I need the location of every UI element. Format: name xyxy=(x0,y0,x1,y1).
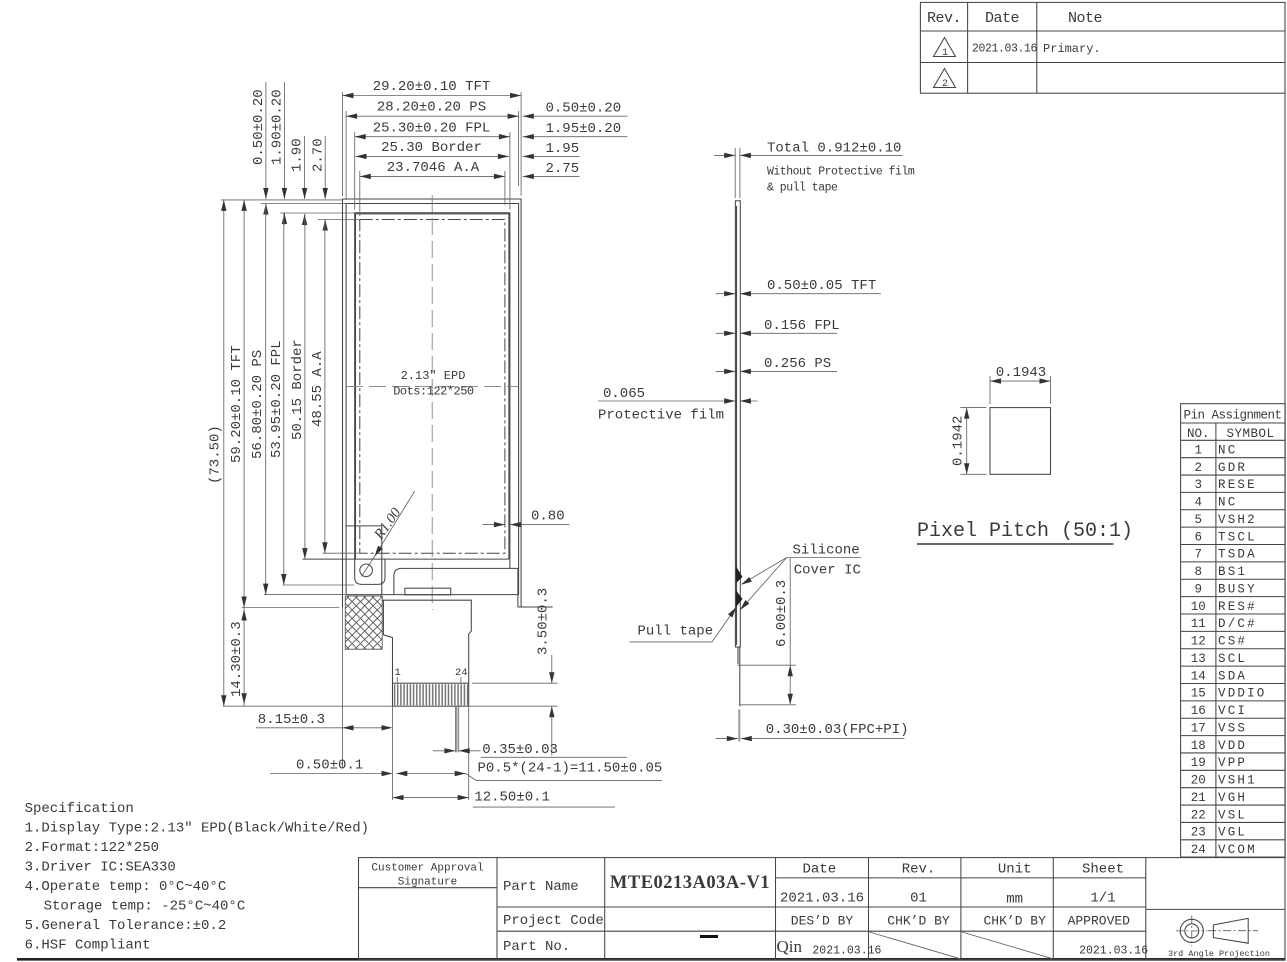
svg-text:8.15±0.3: 8.15±0.3 xyxy=(258,712,325,728)
dimension 0.1943 xyxy=(990,380,1051,382)
dimension 0.50+-0.05 TFT xyxy=(716,293,736,295)
bonding zone right edge xyxy=(381,526,383,595)
right gap dimension 2.75 xyxy=(523,175,580,177)
svg-text:NC: NC xyxy=(1218,444,1237,458)
svg-text:14: 14 xyxy=(1191,669,1206,683)
svg-text:TSCL: TSCL xyxy=(1218,530,1257,544)
R1.00 leader xyxy=(375,491,415,557)
connector pin block xyxy=(393,683,469,706)
pin 1 tick and label xyxy=(396,677,398,683)
gap dim line 1.90 xyxy=(304,136,306,199)
pin 24 tick and label xyxy=(460,677,462,683)
svg-text:1/1: 1/1 xyxy=(1090,891,1115,907)
svg-text:GDR: GDR xyxy=(1218,461,1247,475)
3rd angle projection cone symbol xyxy=(1213,918,1248,943)
svg-text:Pin Assignment: Pin Assignment xyxy=(1183,409,1281,423)
svg-text:mm: mm xyxy=(1006,892,1023,908)
TFT glass outline xyxy=(343,199,522,608)
svg-text:6: 6 xyxy=(1194,530,1202,544)
svg-text:VCOM: VCOM xyxy=(1218,843,1257,857)
sheet right border xyxy=(1284,2,1286,959)
svg-text:VDD: VDD xyxy=(1218,739,1247,753)
svg-text:2: 2 xyxy=(942,79,948,90)
dimension 0.1942 xyxy=(966,408,968,475)
cover IC blob xyxy=(736,590,743,607)
svg-text:11: 11 xyxy=(1191,617,1206,631)
bonding zone top edge xyxy=(346,525,382,527)
svg-text:Dots:122*250: Dots:122*250 xyxy=(393,385,474,399)
polarizer step outline right of hole xyxy=(394,568,518,607)
svg-text:Without Protective film: Without Protective film xyxy=(767,165,915,178)
svg-text:NO.: NO. xyxy=(1187,427,1210,441)
3rd angle projection circle symbol xyxy=(1180,919,1203,942)
dimension 0.256 PS xyxy=(716,370,736,372)
svg-text:VGL: VGL xyxy=(1218,826,1247,840)
revision table frame xyxy=(920,2,1285,93)
dimension 0.50+-0.1 xyxy=(270,773,392,775)
svg-text:0.80: 0.80 xyxy=(531,509,565,525)
svg-text:4.Operate temp: 0°C~40°C: 4.Operate temp: 0°C~40°C xyxy=(25,879,227,895)
PS bottom edge xyxy=(346,594,518,596)
svg-text:16: 16 xyxy=(1191,704,1206,718)
svg-text:Protective film: Protective film xyxy=(598,408,724,424)
dimension 25.30+-0.20 FPL xyxy=(355,136,510,138)
sheet bottom border xyxy=(17,958,1286,961)
svg-text:Pull tape: Pull tape xyxy=(638,624,714,640)
ACF hatch area xyxy=(345,596,382,649)
svg-text:2021.03.16: 2021.03.16 xyxy=(1079,945,1148,958)
dimension 0.30+-0.03 (FPC+PI) xyxy=(716,738,738,740)
svg-text:2: 2 xyxy=(1194,461,1202,475)
left dimension 48.55 A.A xyxy=(324,220,326,554)
svg-text:5.General Tolerance:±0.2: 5.General Tolerance:±0.2 xyxy=(25,918,227,934)
FPC lower strip xyxy=(739,647,741,706)
svg-text:0.065: 0.065 xyxy=(603,386,645,402)
svg-text:VGH: VGH xyxy=(1218,791,1247,805)
svg-text:2021.03.16: 2021.03.16 xyxy=(780,891,864,907)
TFT left edge extension down xyxy=(342,608,344,769)
svg-text:01: 01 xyxy=(910,891,927,907)
svg-text:VSH2: VSH2 xyxy=(1218,513,1257,527)
svg-text:VSH1: VSH1 xyxy=(1218,774,1257,788)
left dimension 56.80+-0.20 PS xyxy=(265,204,267,595)
svg-text:2021.03.16: 2021.03.16 xyxy=(812,945,881,958)
svg-text:Primary.: Primary. xyxy=(1043,42,1101,56)
left dimension 59.20+-0.10 TFT xyxy=(243,200,245,608)
svg-text:CHK’D BY: CHK’D BY xyxy=(887,914,950,929)
border outline xyxy=(356,214,509,559)
svg-text:1.95±0.20: 1.95±0.20 xyxy=(546,121,622,137)
svg-text:Note: Note xyxy=(1068,10,1103,27)
dimension 0.80 xyxy=(482,524,505,526)
svg-text:13: 13 xyxy=(1191,652,1206,666)
svg-text:24: 24 xyxy=(455,667,468,679)
svg-text:53.95±0.20 FPL: 53.95±0.20 FPL xyxy=(269,340,285,458)
svg-text:0.1942: 0.1942 xyxy=(951,416,967,466)
svg-text:Part Name: Part Name xyxy=(503,879,579,895)
silicone blob xyxy=(736,566,743,583)
cover IC leader xyxy=(741,558,787,610)
svg-text:12.50±0.1: 12.50±0.1 xyxy=(474,790,550,806)
svg-text:2.Format:122*250: 2.Format:122*250 xyxy=(25,840,159,856)
revision marker triangle 2 xyxy=(934,69,956,88)
svg-text:0.156 FPL: 0.156 FPL xyxy=(764,318,840,334)
svg-text:Part No.: Part No. xyxy=(503,939,570,955)
TFT bottom right edge segment xyxy=(518,606,553,608)
svg-text:Signature: Signature xyxy=(398,877,457,889)
dimension 0.065 protective film xyxy=(598,400,735,402)
dimension 0.35+-0.03 xyxy=(433,750,455,752)
PS sheet outline xyxy=(346,204,518,595)
pull tape strip xyxy=(738,710,740,742)
svg-text:BUSY: BUSY xyxy=(1218,582,1257,596)
svg-text:3: 3 xyxy=(1194,478,1202,492)
svg-text:23: 23 xyxy=(1191,826,1206,840)
svg-text:2.70: 2.70 xyxy=(310,138,326,172)
svg-text:48.55 A.A: 48.55 A.A xyxy=(310,351,326,427)
dimension Total 0.912+-0.10 xyxy=(714,148,903,198)
dimension 6.00+-0.3 xyxy=(738,558,797,705)
svg-text:Qin: Qin xyxy=(777,937,803,956)
svg-text:VSL: VSL xyxy=(1218,808,1247,822)
svg-text:3rd Angle Projection: 3rd Angle Projection xyxy=(1168,949,1270,959)
svg-text:Rev.: Rev. xyxy=(902,862,936,878)
dimension 28.20+-0.20 PS xyxy=(346,115,518,117)
FPL sheet outline xyxy=(355,213,510,585)
svg-text:14.30±0.3: 14.30±0.3 xyxy=(229,621,245,697)
svg-text:NC: NC xyxy=(1218,496,1237,510)
horizontal centerline xyxy=(346,385,518,387)
svg-text:6.HSF Compliant: 6.HSF Compliant xyxy=(25,938,151,954)
top extension lines xyxy=(343,92,522,216)
svg-text:CS#: CS# xyxy=(1218,635,1247,649)
svg-text:VCI: VCI xyxy=(1218,704,1247,718)
active area A.A dash-dot rectangle xyxy=(360,220,505,554)
svg-text:0.256 PS: 0.256 PS xyxy=(764,356,831,372)
svg-text:RESE: RESE xyxy=(1218,478,1257,492)
svg-text:8: 8 xyxy=(1194,565,1202,579)
dimension 25.30 Border xyxy=(356,155,509,157)
extended pin trace below connector xyxy=(456,706,459,752)
svg-text:2021.03.16: 2021.03.16 xyxy=(972,43,1038,56)
svg-text:4: 4 xyxy=(1194,496,1202,510)
svg-text:BS1: BS1 xyxy=(1218,565,1247,579)
dimension 29.20+-0.10 TFT xyxy=(343,95,522,97)
svg-text:1: 1 xyxy=(942,48,948,59)
svg-text:APPROVED: APPROVED xyxy=(1068,914,1131,929)
svg-text:22: 22 xyxy=(1191,808,1206,822)
svg-text:17: 17 xyxy=(1191,721,1206,735)
svg-text:P0.5*(24-1)=11.50±0.05: P0.5*(24-1)=11.50±0.05 xyxy=(478,761,663,777)
svg-text:5: 5 xyxy=(1194,513,1202,527)
svg-text:1.90±0.20: 1.90±0.20 xyxy=(270,89,286,165)
svg-text:56.80±0.20 PS: 56.80±0.20 PS xyxy=(250,350,266,459)
right gap dimension 0.50+-0.20 xyxy=(523,115,628,117)
svg-text:SYMBOL: SYMBOL xyxy=(1226,427,1274,441)
svg-text:DES’D BY: DES’D BY xyxy=(791,914,854,929)
svg-text:1: 1 xyxy=(1194,444,1202,458)
glass stack strip xyxy=(735,201,740,647)
svg-text:3.Driver IC:SEA330: 3.Driver IC:SEA330 xyxy=(25,860,176,876)
right gap dimension 1.95+-0.20 xyxy=(523,136,628,138)
svg-text:Date: Date xyxy=(985,10,1020,27)
FPC slot xyxy=(405,588,451,595)
svg-text:50.15 Border: 50.15 Border xyxy=(290,339,306,440)
svg-text:2.13″ EPD: 2.13″ EPD xyxy=(401,369,466,383)
pixel cell square xyxy=(990,408,1051,475)
FPC shoulder outline xyxy=(382,600,471,683)
svg-text:1.95: 1.95 xyxy=(546,141,580,157)
svg-text:59.20±0.10 TFT: 59.20±0.10 TFT xyxy=(229,345,245,463)
svg-text:Customer Approval: Customer Approval xyxy=(371,863,483,875)
gap dim line 0.50+-0.20 xyxy=(265,82,267,199)
right gap dimension 1.95 xyxy=(523,155,580,157)
dimension 0.156 FPL xyxy=(716,332,736,334)
svg-text:Total 0.912±0.10: Total 0.912±0.10 xyxy=(767,141,901,157)
svg-text:7: 7 xyxy=(1194,548,1202,562)
svg-text:21: 21 xyxy=(1191,791,1206,805)
svg-text:& pull tape: & pull tape xyxy=(767,181,838,194)
svg-text:25.30±0.20 FPL: 25.30±0.20 FPL xyxy=(373,120,491,136)
svg-text:Sheet: Sheet xyxy=(1082,862,1124,878)
svg-text:25.30 Border: 25.30 Border xyxy=(381,140,482,156)
svg-text:1.Display Type:2.13″ EPD(Black: 1.Display Type:2.13″ EPD(Black/White/Red… xyxy=(25,821,369,837)
project code dash xyxy=(700,935,718,938)
left dimension 14.30+-0.3 xyxy=(243,608,245,707)
svg-text:20: 20 xyxy=(1191,774,1206,788)
gap dim line 2.70 xyxy=(324,136,326,199)
svg-text:Silicone: Silicone xyxy=(793,543,860,559)
svg-text:1: 1 xyxy=(395,667,401,679)
svg-text:VDDIO: VDDIO xyxy=(1218,687,1267,701)
border bottom edge xyxy=(303,558,509,560)
dimension 12.50+-0.1 xyxy=(393,797,469,799)
svg-text:19: 19 xyxy=(1191,756,1206,770)
svg-text:10: 10 xyxy=(1191,600,1206,614)
svg-text:28.20±0.20 PS: 28.20±0.20 PS xyxy=(377,100,486,116)
svg-text:18: 18 xyxy=(1191,739,1206,753)
svg-text:Unit: Unit xyxy=(998,862,1032,878)
svg-text:0.50±0.05 TFT: 0.50±0.05 TFT xyxy=(767,278,876,294)
svg-text:2.75: 2.75 xyxy=(546,161,580,177)
svg-text:12: 12 xyxy=(1191,635,1206,649)
pixel pitch extension lines xyxy=(960,376,1050,474)
silicone leader xyxy=(742,558,787,585)
svg-text:TSDA: TSDA xyxy=(1218,548,1257,562)
FPC tail edges below connector xyxy=(393,706,469,800)
svg-text:15: 15 xyxy=(1191,687,1206,701)
connector pins hatching xyxy=(395,684,468,705)
svg-text:SDA: SDA xyxy=(1218,669,1247,683)
dimension 3.50+-0.3 xyxy=(472,655,558,756)
vertical centerline xyxy=(431,195,433,610)
left dimension (73.50) xyxy=(223,200,225,706)
svg-text:Storage temp: -25°C~40°C: Storage temp: -25°C~40°C xyxy=(44,899,246,915)
svg-text:VPP: VPP xyxy=(1218,756,1247,770)
svg-text:9: 9 xyxy=(1194,582,1202,596)
dimension 23.7046 A.A xyxy=(360,175,505,177)
svg-text:Specification: Specification xyxy=(25,801,134,817)
svg-text:0.30±0.03(FPC+PI): 0.30±0.03(FPC+PI) xyxy=(766,722,909,738)
svg-text:Date: Date xyxy=(802,862,836,878)
gap dim line 1.90+-0.20 xyxy=(283,82,285,199)
strip dark core xyxy=(736,206,738,645)
alignment hole circle xyxy=(360,564,373,577)
diagonal slash unit cell xyxy=(962,932,1053,959)
svg-text:23.7046 A.A: 23.7046 A.A xyxy=(387,160,480,176)
svg-text:Rev.: Rev. xyxy=(927,10,961,27)
pull tape leader xyxy=(712,608,735,642)
dimension P0.5*(24-1)=11.50+-0.05 xyxy=(396,773,465,775)
svg-text:3.50±0.3: 3.50±0.3 xyxy=(536,588,552,655)
svg-text:MTE0213A03A-V1: MTE0213A03A-V1 xyxy=(610,873,770,893)
svg-text:D/C#: D/C# xyxy=(1218,617,1257,631)
svg-text:0.50±0.20: 0.50±0.20 xyxy=(251,89,267,165)
left dimension 50.15 Border xyxy=(304,214,306,559)
svg-text:VSS: VSS xyxy=(1218,721,1247,735)
svg-text:Cover IC: Cover IC xyxy=(794,562,861,578)
svg-text:1.90: 1.90 xyxy=(290,138,306,172)
svg-text:SCL: SCL xyxy=(1218,652,1247,666)
svg-text:(73.50): (73.50) xyxy=(208,425,224,484)
left dimension 53.95+-0.20 FPL xyxy=(283,213,285,585)
svg-text:6.00±0.3: 6.00±0.3 xyxy=(774,580,790,647)
svg-text:0.50±0.20: 0.50±0.20 xyxy=(546,100,622,116)
svg-text:CHK’D BY: CHK’D BY xyxy=(983,914,1046,929)
svg-text:Pixel Pitch (50:1): Pixel Pitch (50:1) xyxy=(917,520,1133,543)
left extension lines xyxy=(221,200,558,706)
svg-text:29.20±0.10 TFT: 29.20±0.10 TFT xyxy=(373,79,491,95)
revision marker triangle 1 xyxy=(934,38,956,57)
svg-text:0.35±0.03: 0.35±0.03 xyxy=(482,742,558,758)
svg-text:24: 24 xyxy=(1191,843,1206,857)
diagonal slash rev cell xyxy=(870,932,961,959)
svg-text:RES#: RES# xyxy=(1218,600,1257,614)
svg-text:0.50±0.1: 0.50±0.1 xyxy=(296,758,363,774)
svg-text:0.1943: 0.1943 xyxy=(996,365,1046,381)
svg-text:Project Code: Project Code xyxy=(503,913,604,929)
dimension 8.15+-0.3 xyxy=(256,727,391,729)
